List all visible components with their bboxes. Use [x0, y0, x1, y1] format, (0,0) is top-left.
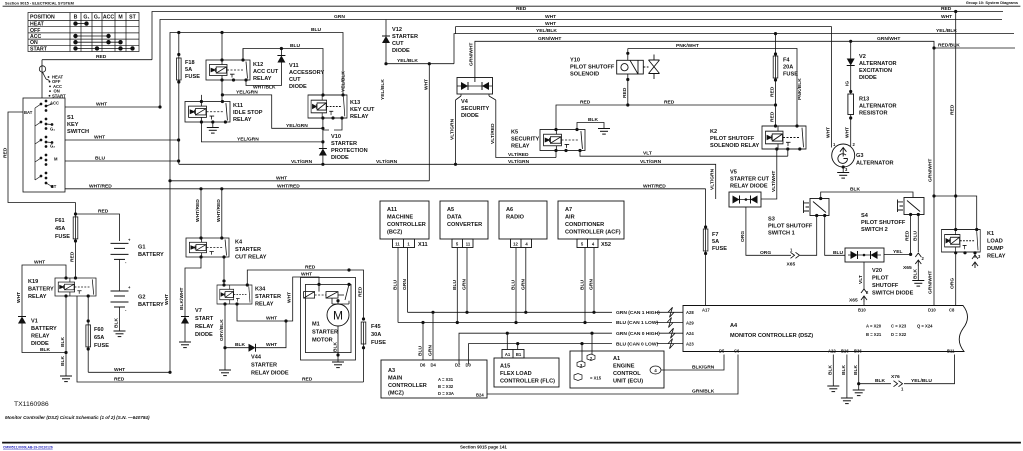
V4 risers to VLT wires [456, 94, 557, 164]
svg-text:20A: 20A [783, 65, 793, 71]
svg-text:ORG: ORG [760, 250, 771, 256]
svg-text:BATTERY: BATTERY [28, 287, 54, 293]
relay K19 battery relay [55, 278, 96, 296]
svg-text:RED: RED [98, 209, 109, 215]
svg-text:GRN/WHT: GRN/WHT [469, 43, 475, 66]
K2 coil bottom to V5 [761, 149, 777, 199]
svg-text:RED: RED [905, 230, 911, 241]
wire YEL/GRN K12 coil to K11 blade [222, 80, 323, 128]
svg-text:GRN (CAN 1 HIGH): GRN (CAN 1 HIGH) [616, 310, 660, 316]
svg-text:YEL/GRN: YEL/GRN [286, 123, 308, 129]
svg-text:POSITION: POSITION [30, 15, 55, 21]
svg-text:CONTROLLER (ACF): CONTROLLER (ACF) [565, 230, 621, 236]
svg-text:IG: IG [845, 81, 851, 86]
wire WHT battery bus [170, 180, 429, 182]
svg-text:YEL: YEL [893, 249, 903, 255]
K1 blade bottom stub with X65 arrow [974, 253, 976, 258]
svg-text:GRN/WHT: GRN/WHT [877, 36, 900, 42]
svg-text:YEL/BLK: YEL/BLK [397, 58, 418, 64]
header rule [3, 5, 1020, 7]
svg-text:A11: A11 [387, 207, 397, 213]
svg-text:A23: A23 [686, 342, 694, 347]
svg-text:RELAY: RELAY [31, 334, 50, 340]
diode V12 starter cut [385, 20, 387, 64]
svg-text:STARTER: STARTER [251, 363, 277, 369]
A15 riser wires [507, 333, 517, 349]
svg-text:CONTROLLER (FLC): CONTROLLER (FLC) [500, 379, 555, 385]
motor M1 circle [327, 304, 349, 326]
diode V7 start relay [181, 317, 189, 324]
solenoid Y10 pilot shutoff [617, 55, 660, 80]
wire S1 G1 WHT output [65, 139, 179, 141]
K34 coil bottom to V44 junction and ground [224, 304, 226, 370]
relay K4 starter cut [186, 238, 229, 257]
svg-text:DIODE: DIODE [461, 113, 479, 119]
relay K11 idle stop [185, 102, 230, 123]
diode box V20 pilot shutoff switch diode [845, 248, 884, 262]
key position table [28, 13, 139, 52]
svg-text:BLK: BLK [850, 187, 861, 193]
svg-text:K12: K12 [253, 62, 263, 68]
ground under K11 [212, 122, 214, 128]
svg-text:WHT/RED: WHT/RED [643, 183, 666, 189]
relay K5 security [540, 130, 585, 151]
svg-text:GRN/WHT: GRN/WHT [538, 36, 561, 42]
svg-text:M1: M1 [312, 322, 320, 328]
svg-text:FUSE: FUSE [712, 246, 727, 252]
svg-text:V4: V4 [461, 99, 469, 105]
svg-text:V2: V2 [859, 54, 866, 60]
svg-text:PILOT SHUTOFF: PILOT SHUTOFF [710, 136, 755, 142]
top bus RED/BLK right [934, 47, 1015, 49]
V20 mid pin VLT riser to X65 arrow and B10 [863, 262, 865, 290]
svg-text:CM90512,0000LAB-19-20110126: CM90512,0000LAB-19-20110126 [3, 446, 53, 450]
svg-text:RED: RED [664, 100, 675, 106]
K4 risers from WHT/RED bus [201, 189, 222, 238]
svg-text:PILOT SHUTOFF: PILOT SHUTOFF [570, 65, 615, 71]
G3 terminal WHT riser from top bus [831, 27, 833, 148]
svg-text:START: START [195, 316, 214, 322]
svg-text:WHT: WHT [301, 272, 312, 278]
svg-text:BLU: BLU [290, 43, 301, 49]
svg-text:GRN/WHT: GRN/WHT [928, 271, 934, 294]
svg-text:VLT/WHT: VLT/WHT [771, 171, 777, 192]
svg-text:CONDITIONER: CONDITIONER [565, 222, 604, 228]
wire S1 ST WHT/RED bus [65, 188, 706, 190]
svg-text:V44: V44 [251, 355, 262, 361]
svg-text:PNK/BLK: PNK/BLK [797, 78, 803, 100]
wire WHT long vertical to lower WHT bus [428, 64, 430, 181]
fuse F61 45A [73, 217, 78, 239]
battery G1 [111, 243, 129, 259]
svg-text:RELAY: RELAY [28, 294, 47, 300]
svg-text:BLU: BLU [311, 27, 322, 33]
svg-text:VLT/RED: VLT/RED [508, 152, 529, 158]
relay K13 key cut [308, 95, 347, 118]
svg-text:WHT: WHT [94, 135, 105, 141]
svg-text:RESISTOR: RESISTOR [859, 111, 888, 117]
svg-text:PILOT: PILOT [872, 276, 889, 282]
svg-text:V5: V5 [730, 170, 737, 176]
svg-text:RED: RED [622, 87, 628, 98]
wire YEL/GRN K11 coil to V10 riser [201, 122, 323, 142]
svg-text:BLK: BLK [588, 117, 599, 123]
svg-text:DIODE: DIODE [289, 84, 307, 90]
svg-text:RELAY DIODE: RELAY DIODE [251, 371, 289, 377]
svg-text:X65: X65 [849, 298, 858, 304]
top bus RED [152, 12, 1003, 60]
svg-text:X65: X65 [903, 265, 912, 271]
svg-text:ACC CUT: ACC CUT [253, 69, 279, 75]
svg-text:BLK: BLK [912, 268, 918, 279]
svg-text:K2: K2 [710, 129, 717, 135]
wire BLU K12 to V11 to K13 coil [243, 49, 323, 96]
wire YEL/BLK V12 to bus riser [386, 63, 454, 65]
svg-text:WHT: WHT [114, 367, 125, 373]
svg-text:WHT/RED: WHT/RED [277, 183, 300, 189]
svg-text:RED: RED [305, 265, 316, 271]
Y10 wires [627, 49, 629, 106]
svg-text:Section 9015 page 141: Section 9015 page 141 [460, 445, 507, 450]
svg-text:RELAY: RELAY [195, 324, 214, 330]
svg-text:F7: F7 [712, 232, 719, 238]
svg-text:V20: V20 [872, 268, 882, 274]
svg-text:Q = X24: Q = X24 [917, 324, 933, 329]
bus CAN0 LOW BLU [469, 344, 613, 364]
svg-text:45A: 45A [55, 226, 65, 232]
svg-text:M: M [333, 309, 343, 323]
svg-text:D6: D6 [420, 363, 426, 368]
svg-text:R13: R13 [859, 97, 869, 103]
svg-text:WHT: WHT [276, 175, 287, 181]
svg-text:STARTER: STARTER [331, 141, 357, 147]
top bus GRN/WHT long (S1 ACC riser to right edge) [160, 20, 1002, 108]
svg-text:DATA: DATA [447, 215, 462, 221]
svg-text:A28: A28 [686, 310, 694, 315]
svg-text:YEL/BLK: YEL/BLK [341, 71, 347, 92]
S4 RED riser to YEL wire [910, 215, 912, 255]
svg-text:WHT: WHT [96, 102, 107, 108]
svg-text:B10: B10 [858, 308, 866, 313]
svg-text:G₁: G₁ [50, 127, 55, 132]
svg-text:STARTER: STARTER [392, 34, 418, 40]
K5 blade bottom to VLT wire [580, 151, 788, 157]
wire G2 negative to ground [119, 307, 121, 331]
controller A7 air conditioner [558, 201, 624, 248]
svg-text:DIODE: DIODE [859, 75, 877, 81]
svg-text:G₂: G₂ [94, 15, 101, 21]
svg-text:B24: B24 [476, 393, 484, 398]
svg-text:STARTER: STARTER [312, 330, 338, 336]
svg-text:B11: B11 [947, 349, 955, 354]
svg-text:RELAY: RELAY [511, 144, 530, 150]
svg-text:GRN: GRN [520, 279, 526, 290]
wire B36 BLK to connector X76 YEL/BLU to B11 [859, 383, 891, 385]
svg-text:VLT/GRN: VLT/GRN [450, 118, 456, 140]
V5 mid pin ORG wire to connector X65 [746, 207, 817, 255]
svg-text:FUSE: FUSE [55, 234, 70, 240]
svg-text:DIODE: DIODE [392, 48, 410, 54]
svg-text:WHT: WHT [545, 21, 556, 27]
svg-text:WHT: WHT [287, 292, 293, 303]
svg-text:DIODE: DIODE [331, 155, 349, 161]
svg-text:MAIN: MAIN [388, 376, 402, 382]
svg-text:V10: V10 [331, 134, 341, 140]
wire G1 to G2 [119, 259, 121, 291]
svg-text:G₂: G₂ [50, 144, 55, 149]
wire RED right vertical to K1 coil [955, 12, 957, 230]
svg-text:RED/BLK: RED/BLK [938, 43, 960, 49]
svg-text:RED: RED [770, 86, 776, 97]
svg-text:GRN/WHT: GRN/WHT [928, 159, 934, 182]
svg-text:CUT RELAY: CUT RELAY [235, 255, 267, 261]
svg-text:YEL/GRN: YEL/GRN [237, 136, 259, 142]
svg-text:BLU: BLU [418, 345, 424, 356]
svg-text:GRN: GRN [428, 345, 434, 356]
bus VLT/GRN long [179, 164, 716, 199]
svg-text:B: B [74, 15, 78, 21]
svg-text:START: START [30, 46, 48, 52]
svg-text:DUMP: DUMP [987, 246, 1004, 252]
svg-text:TX1160986: TX1160986 [14, 401, 49, 408]
controller A11 machine controller [380, 201, 429, 248]
svg-text:11: 11 [395, 242, 400, 247]
svg-text:D2: D2 [455, 363, 461, 368]
svg-text:X52: X52 [601, 242, 611, 248]
svg-text:FUSE: FUSE [783, 72, 798, 78]
svg-text:MOTOR: MOTOR [312, 338, 333, 344]
svg-text:5A: 5A [185, 67, 192, 73]
wire PNK/WHT Y10 to K2 blade [628, 49, 797, 127]
fuse F18 [177, 58, 182, 80]
svg-text:ACC: ACC [30, 34, 41, 40]
svg-text:ALTERNATOR: ALTERNATOR [859, 61, 897, 67]
svg-text:SWITCH 2: SWITCH 2 [861, 227, 888, 233]
svg-text:BLK/GRN: BLK/GRN [692, 365, 715, 371]
svg-text:ON: ON [30, 40, 38, 46]
svg-text:RELAY: RELAY [350, 114, 369, 120]
svg-text:F4: F4 [783, 58, 790, 64]
svg-text:BLK: BLK [841, 364, 847, 375]
svg-text:GRN: GRN [334, 14, 345, 20]
svg-text:Section 9015 - ELECTRICAL SYST: Section 9015 - ELECTRICAL SYSTEM [5, 1, 74, 6]
svg-text:RED: RED [70, 251, 76, 262]
svg-text:K13: K13 [350, 100, 360, 106]
svg-text:FUSE: FUSE [94, 343, 109, 349]
svg-text:SWITCH DIODE: SWITCH DIODE [872, 291, 914, 297]
controller A6 radio [499, 201, 547, 248]
relay K1 load dump [942, 230, 981, 253]
svg-text:CUT: CUT [289, 77, 301, 83]
ECU pin4 BLK/GRN wire to D5 [661, 355, 724, 371]
relay K12 ACC cut [206, 60, 250, 80]
svg-text:RED: RED [770, 111, 776, 122]
svg-text:A24: A24 [686, 331, 694, 336]
svg-text:RED: RED [950, 104, 956, 115]
svg-text:YEL/BLK: YEL/BLK [536, 28, 557, 34]
fuse F4 [773, 56, 778, 78]
svg-text:A22: A22 [828, 349, 836, 354]
svg-text:BLK: BLK [875, 378, 886, 384]
svg-text:ORG: ORG [950, 278, 956, 289]
svg-text:ST: ST [129, 15, 136, 21]
fuse F45 30A [361, 322, 366, 344]
svg-text:K1: K1 [987, 231, 994, 237]
svg-text:RELAY: RELAY [987, 254, 1006, 260]
svg-text:CONTROLLER: CONTROLLER [387, 222, 426, 228]
svg-text:BATTERY: BATTERY [138, 252, 164, 258]
svg-text:GRN: GRN [462, 279, 468, 290]
svg-text:S3: S3 [768, 217, 775, 223]
wire BLU bus upper (battery riser to K13 blade) [170, 33, 343, 181]
ECU risers to CAN0 [582, 333, 592, 361]
svg-text:K34: K34 [255, 287, 266, 293]
svg-text:X65: X65 [787, 262, 796, 268]
top bus YEL/BLK [454, 34, 1014, 64]
svg-text:VLT/GRN: VLT/GRN [376, 159, 398, 165]
wire RED K5 top feed [556, 105, 776, 130]
svg-text:D4: D4 [431, 363, 437, 368]
svg-text:BAT: BAT [24, 110, 33, 115]
fuse F60 65A [86, 325, 91, 347]
svg-text:AIR: AIR [565, 215, 575, 221]
svg-text:B = X32: B = X32 [438, 384, 454, 389]
wire S1 BAT feed [8, 112, 76, 203]
wire WHT bottom bus F60 to battery string [88, 371, 170, 373]
svg-text:V7: V7 [195, 308, 202, 314]
svg-text:A = X31: A = X31 [438, 377, 454, 382]
key switch S1 [23, 60, 65, 192]
svg-text:RELAY DIODE: RELAY DIODE [730, 184, 768, 190]
wire WHT K19 coil top [22, 265, 66, 317]
svg-text:CUT: CUT [392, 41, 404, 47]
svg-text:5A: 5A [712, 239, 719, 245]
svg-text:DIODE: DIODE [195, 332, 213, 338]
bus CAN1 HIGH GRN [408, 311, 613, 313]
svg-text:CONTROLLER: CONTROLLER [388, 383, 427, 389]
svg-text:VLT/RED: VLT/RED [490, 123, 496, 144]
svg-text:K4: K4 [235, 240, 243, 246]
svg-text:V11: V11 [289, 63, 299, 69]
top bus WHT second [456, 26, 832, 28]
svg-text:UNIT (ECU): UNIT (ECU) [613, 379, 643, 385]
svg-text:K5: K5 [511, 130, 518, 136]
svg-text:WHT/RED: WHT/RED [89, 183, 112, 189]
svg-text:M: M [54, 157, 58, 162]
svg-text:S4: S4 [861, 213, 869, 219]
svg-text:EXCITATION: EXCITATION [859, 68, 892, 74]
wire BLK S3 top to K1 [821, 192, 913, 199]
svg-text:SHUTOFF: SHUTOFF [872, 283, 899, 289]
svg-text:ACC: ACC [103, 15, 114, 21]
svg-text:WHT: WHT [941, 14, 952, 20]
svg-text:S1: S1 [67, 115, 74, 121]
bus CAN0 HIGH GRN [459, 333, 612, 364]
svg-text:STARTER CUT: STARTER CUT [730, 177, 770, 183]
svg-text:YEL/BLK: YEL/BLK [380, 79, 386, 100]
svg-text:RED: RED [3, 147, 9, 158]
alternator G3 [832, 144, 855, 167]
controller A3 main controller [381, 360, 487, 398]
svg-text:F18: F18 [185, 60, 195, 66]
svg-text:BLK: BLK [40, 347, 51, 353]
bus CAN1 LOW BLU [398, 322, 612, 324]
svg-text:WHT: WHT [266, 316, 277, 322]
K4 blade bottom to K34 coil [223, 257, 225, 285]
svg-text:(BCZ): (BCZ) [387, 230, 402, 236]
svg-text:PILOT SHUTOFF: PILOT SHUTOFF [861, 220, 906, 226]
diode V11 accessory cut [277, 56, 285, 63]
svg-text:WHT: WHT [164, 294, 170, 305]
svg-text:RADIO: RADIO [506, 215, 525, 221]
K4 coil bottom to V7 chain [185, 257, 201, 317]
svg-text:SWITCH 1: SWITCH 1 [768, 231, 795, 237]
svg-text:BLU: BLU [95, 156, 106, 162]
K34 mid pin WHT wire to motor [237, 277, 319, 321]
svg-text:= X15: = X15 [590, 376, 602, 381]
svg-text:A1: A1 [613, 356, 620, 362]
svg-text:11: 11 [466, 242, 471, 247]
svg-text:SECURITY: SECURITY [461, 106, 490, 112]
svg-text:BLK: BLK [828, 364, 834, 375]
svg-text:RELAY: RELAY [233, 117, 252, 123]
svg-text:PNK/WHT: PNK/WHT [676, 43, 699, 49]
svg-text:B36: B36 [854, 349, 862, 354]
svg-text:A7: A7 [565, 207, 572, 213]
svg-text:BLK: BLK [60, 336, 66, 347]
K1 coil bottom ORG riser to C8 [955, 252, 957, 305]
svg-text:ACCESSORY: ACCESSORY [289, 70, 324, 76]
svg-text:BLU: BLU [912, 230, 918, 241]
svg-text:X11: X11 [418, 242, 428, 248]
battery string vertical WHT [169, 181, 171, 372]
controller A1 ECU [570, 351, 664, 388]
K2 mid pin to VLT wire [787, 149, 789, 156]
svg-text:YEL/BLU: YEL/BLU [911, 378, 932, 384]
svg-text:KEY CUT: KEY CUT [350, 107, 375, 113]
svg-text:START: START [52, 93, 66, 98]
diode V10 starter protection [319, 149, 327, 156]
svg-text:B1: B1 [516, 352, 522, 357]
diode box V5 starter cut relay diode [729, 192, 761, 207]
K19 contact output down to RED bottom bus [77, 296, 364, 382]
svg-text:WHT: WHT [845, 127, 851, 138]
relay K34 starter relay [217, 285, 252, 304]
svg-text:VLT/GRN: VLT/GRN [291, 159, 313, 165]
ECU pin hexagons [574, 354, 661, 381]
S1 internal contacts [35, 100, 53, 188]
svg-text:CONVERTER: CONVERTER [447, 222, 482, 228]
switch S3 pilot shutoff 1 [804, 199, 830, 216]
resistor R13 alternator [848, 94, 854, 115]
svg-text:BATTERY: BATTERY [31, 326, 57, 332]
motor ground [337, 326, 339, 355]
A11 CAN wires [398, 248, 408, 323]
svg-text:K11: K11 [233, 103, 243, 109]
svg-text:BLK: BLK [60, 355, 66, 366]
wire S1 ACC WHT output [65, 106, 160, 108]
svg-text:PROTECTION: PROTECTION [331, 148, 368, 154]
svg-text:A29: A29 [686, 321, 694, 326]
svg-text:RED: RED [941, 6, 952, 12]
svg-text:IDLE STOP: IDLE STOP [233, 110, 263, 116]
svg-text:SOLENOID RELAY: SOLENOID RELAY [710, 143, 759, 149]
diode bridge V4 security [457, 78, 493, 95]
svg-text:BLU: BLU [511, 279, 517, 290]
wire S1 G2 BLU output [65, 160, 179, 162]
svg-text:ACC: ACC [50, 101, 59, 106]
motor M1 assembly box [301, 278, 356, 361]
